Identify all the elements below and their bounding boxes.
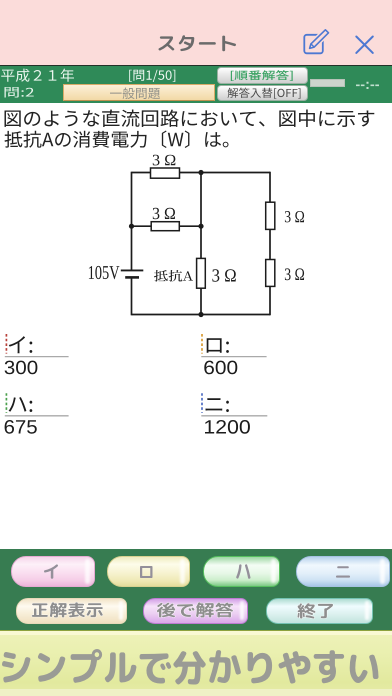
progress box bbox=[310, 79, 345, 87]
label R4 value 3 ohm bbox=[285, 268, 304, 280]
pill button HA bbox=[203, 556, 280, 587]
white button [junban] bbox=[217, 67, 308, 83]
pill button I bbox=[11, 556, 95, 587]
wire center rail lower (resistor A to node BC) bbox=[200, 288, 202, 315]
wire center rail middle (node MC to resistor A) bbox=[200, 226, 202, 258]
wire middle-branch left (node ML to resistor R2) bbox=[132, 225, 152, 227]
wire top-left from node TL to resistor R1 bbox=[132, 172, 151, 174]
wire right rail lower (R4 to node BR) bbox=[269, 286, 271, 315]
node junction bottom-center bbox=[198, 312, 203, 317]
label R2 value 3 ohm bbox=[153, 208, 175, 219]
wire right rail upper (node TR to resistor R3) bbox=[269, 172, 271, 203]
edit (compose) icon bbox=[298, 26, 332, 58]
bottom green panel bbox=[0, 549, 392, 630]
white button [kaitou irekae] bbox=[217, 85, 308, 101]
dark separator line bbox=[0, 65, 392, 67]
tan button ippan mondai bbox=[63, 84, 215, 101]
battery E negative plate bbox=[125, 276, 139, 279]
label battery value 105V bbox=[89, 266, 119, 279]
wire center rail upper (node TC to node MC) bbox=[200, 172, 202, 227]
wire bottom (node BL to node BR) bbox=[132, 314, 271, 316]
node junction top-middle bbox=[198, 170, 203, 175]
label R1 value 3 ohm bbox=[153, 155, 176, 166]
node junction middle-center on center rail bbox=[198, 224, 203, 229]
resistor R4 (3 ohm, right branch lower) bbox=[266, 260, 275, 287]
wire left rail lower (battery - down to node BL) bbox=[131, 277, 133, 315]
resistor R2 (3 ohm, middle branch) bbox=[151, 222, 179, 231]
pill button shuuryou bbox=[266, 598, 373, 624]
node junction middle-left on left rail bbox=[129, 224, 134, 229]
battery E 105V positive plate bbox=[121, 269, 144, 271]
top pink title bar bbox=[0, 0, 392, 65]
resistor R3 (3 ohm, right branch upper) bbox=[266, 202, 275, 229]
label resistor A value 3 ohm bbox=[212, 269, 235, 281]
wire middle-branch right (R2 to node MC) bbox=[179, 225, 201, 227]
pill button RO bbox=[107, 556, 190, 587]
wire right rail middle (R3 to R4) bbox=[269, 229, 271, 259]
pill button seikai hyouji bbox=[16, 598, 127, 624]
pill button atode kaitou bbox=[143, 598, 248, 624]
label R3 value 3 ohm bbox=[285, 211, 304, 222]
green header bar bbox=[0, 66, 392, 103]
resistor R1 (3 ohm, top branch) bbox=[151, 168, 180, 178]
close X icon bbox=[354, 34, 376, 56]
label resistor A name 抵抗A bbox=[154, 270, 193, 282]
resistor A (load, 3 ohm, center rail) bbox=[197, 258, 206, 288]
circuit schematic bbox=[89, 155, 304, 317]
pill button NI bbox=[296, 556, 390, 587]
wire left rail upper (node TL down to battery +) bbox=[131, 172, 133, 270]
wire top from R1 to node TR bbox=[180, 172, 271, 174]
ad banner bbox=[0, 630, 392, 696]
